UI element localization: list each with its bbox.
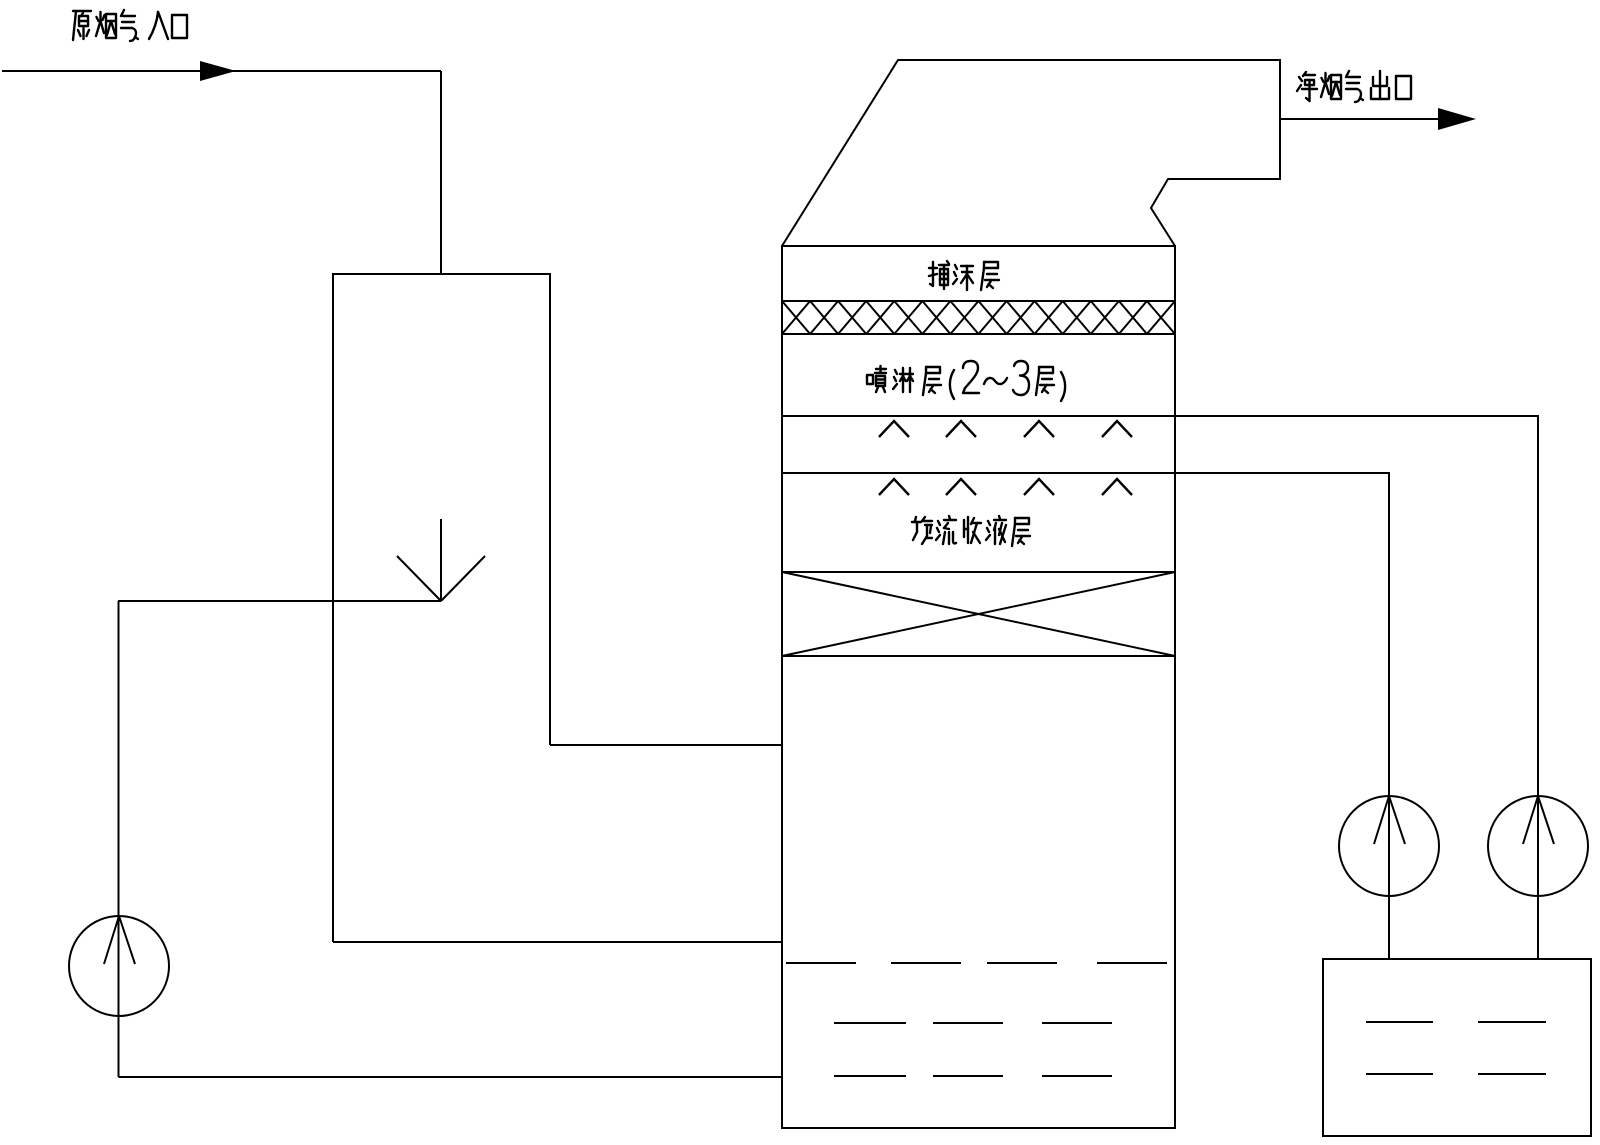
wire: duct to tower bottom connection upper — [550, 744, 782, 746]
swirl collector X-band — [782, 572, 1175, 656]
wire: recycle slurry line into duct — [118, 600, 441, 602]
pump P2 arrow — [1374, 796, 1405, 844]
label: spray layers 喷淋层(2~3层) — [867, 366, 941, 395]
tank liquid dashes row 1 — [1366, 1021, 1546, 1023]
sump liquid level dashes row 1 — [786, 962, 1167, 964]
wire: inlet flue gas line — [2, 70, 441, 72]
wire: left pump suction/discharge vertical — [118, 601, 120, 1077]
demister cross-hatched band — [782, 301, 1175, 334]
spray nozzles row 1 — [879, 421, 1132, 437]
quench spray down-arrow — [397, 519, 485, 601]
label: raw flue gas inlet 原烟气入口 — [73, 10, 187, 41]
wire: duct to tower bottom connection lower — [333, 941, 782, 943]
wire: clean gas outlet line — [1280, 118, 1440, 120]
spray header line 2 to pump P2 — [782, 473, 1389, 959]
tower top hood outline — [782, 60, 1280, 246]
slurry feed tank — [1323, 959, 1591, 1136]
sump liquid dashes row 3 — [834, 1075, 1112, 1077]
label: swirl liquid-collecting layer 旋流收液层 — [912, 516, 1030, 546]
wire: inlet drop to quench duct — [440, 71, 442, 274]
spray header line 1 to pump P3 — [782, 416, 1538, 959]
quench duct box (top) — [333, 274, 550, 942]
label: mist eliminator layer 捕沫层 — [929, 261, 999, 290]
tank liquid dashes row 2 — [1366, 1073, 1546, 1075]
sump liquid dashes row 2 — [834, 1022, 1112, 1024]
pump P3 (spray pump, right of pair) — [1488, 796, 1588, 896]
pump P1 (left recycle pump) — [69, 916, 169, 1016]
label: clean flue gas outlet 净烟气出口 — [1297, 71, 1411, 102]
spray nozzles row 2 — [879, 479, 1132, 495]
pump P3 arrow — [1523, 796, 1554, 844]
arrowhead on inlet line — [200, 61, 236, 81]
absorber tower shell — [782, 246, 1175, 1128]
arrowhead on outlet line — [1438, 108, 1476, 130]
pump P1 arrow — [104, 916, 135, 964]
wire: left pump bottom line to tower sump — [119, 1076, 783, 1078]
pump P2 (spray pump, left of pair) — [1339, 796, 1439, 896]
